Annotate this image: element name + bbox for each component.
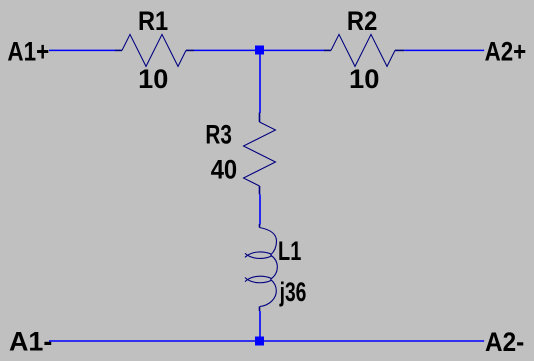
svg-text:L1: L1 (278, 236, 301, 266)
wire R1 to center node (194, 49, 256, 51)
loop 2 upper (245, 276, 272, 281)
svg-text:A2+: A2+ (485, 36, 527, 66)
svg-text:10: 10 (138, 64, 168, 94)
wire L1 to bottom node (259, 311, 261, 338)
svg-text:j36: j36 (279, 277, 307, 307)
node junction bottom (blue square) (255, 337, 264, 346)
svg-text:A1+: A1+ (7, 36, 49, 66)
loop 1 upper (245, 252, 272, 257)
arc 2 (271, 255, 278, 279)
svg-text:10: 10 (349, 64, 379, 94)
wire node down to R3 (259, 54, 261, 113)
resistor R1 (115, 34, 194, 66)
arc 3 (260, 279, 277, 306)
node junction top (blue square) (255, 46, 264, 55)
svg-text:R2: R2 (347, 6, 377, 36)
arc 1 (260, 228, 277, 256)
wire bottom rail (49, 340, 484, 342)
wire R2 to A2+ (404, 49, 484, 51)
wire node to R2 (263, 49, 325, 51)
svg-text:A2-: A2- (485, 327, 524, 357)
loop 1 lower (245, 253, 272, 258)
resistor R2 (324, 34, 404, 66)
wire top-left from A1+ to R1 (49, 49, 116, 51)
inductor L1 (245, 224, 277, 311)
svg-text:40: 40 (211, 155, 238, 185)
resistor R3 (244, 113, 276, 195)
loop 2 lower (245, 278, 272, 283)
wire R3 to L1 (259, 194, 261, 224)
svg-text:A1-: A1- (9, 326, 52, 356)
svg-text:R3: R3 (205, 119, 232, 149)
svg-text:R1: R1 (138, 6, 168, 36)
